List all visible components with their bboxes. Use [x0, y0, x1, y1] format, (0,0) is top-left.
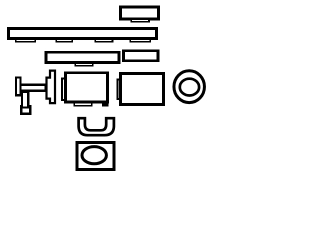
block A left lug: [62, 79, 66, 101]
bracket right flange: [47, 71, 56, 104]
block B left lug: [117, 80, 121, 100]
block A: [65, 73, 107, 102]
long bar tab 3: [95, 39, 112, 42]
top plate: [120, 7, 158, 19]
top plate tab: [131, 19, 149, 22]
block A bottom tab: [74, 103, 92, 106]
lamp box: [77, 142, 114, 169]
block B: [120, 73, 163, 104]
lamp lens ellipse: [82, 147, 106, 164]
block A right step: [103, 103, 108, 106]
exploded parts diagram, line art: [0, 0, 215, 178]
o-ring inner: [180, 79, 199, 96]
saddle: [79, 118, 114, 135]
bracket base: [21, 106, 30, 114]
long bar tab 2: [56, 39, 72, 42]
bracket left flange: [16, 77, 21, 95]
long bar tab 1: [16, 39, 35, 42]
left rail tab: [75, 63, 92, 66]
o-ring outer: [174, 71, 205, 103]
bracket connector: [20, 85, 46, 91]
right rail: [123, 51, 158, 61]
long bar: [9, 28, 157, 38]
left rail: [46, 52, 119, 62]
long bar tab 4: [130, 39, 150, 42]
bracket foot: [22, 92, 28, 108]
